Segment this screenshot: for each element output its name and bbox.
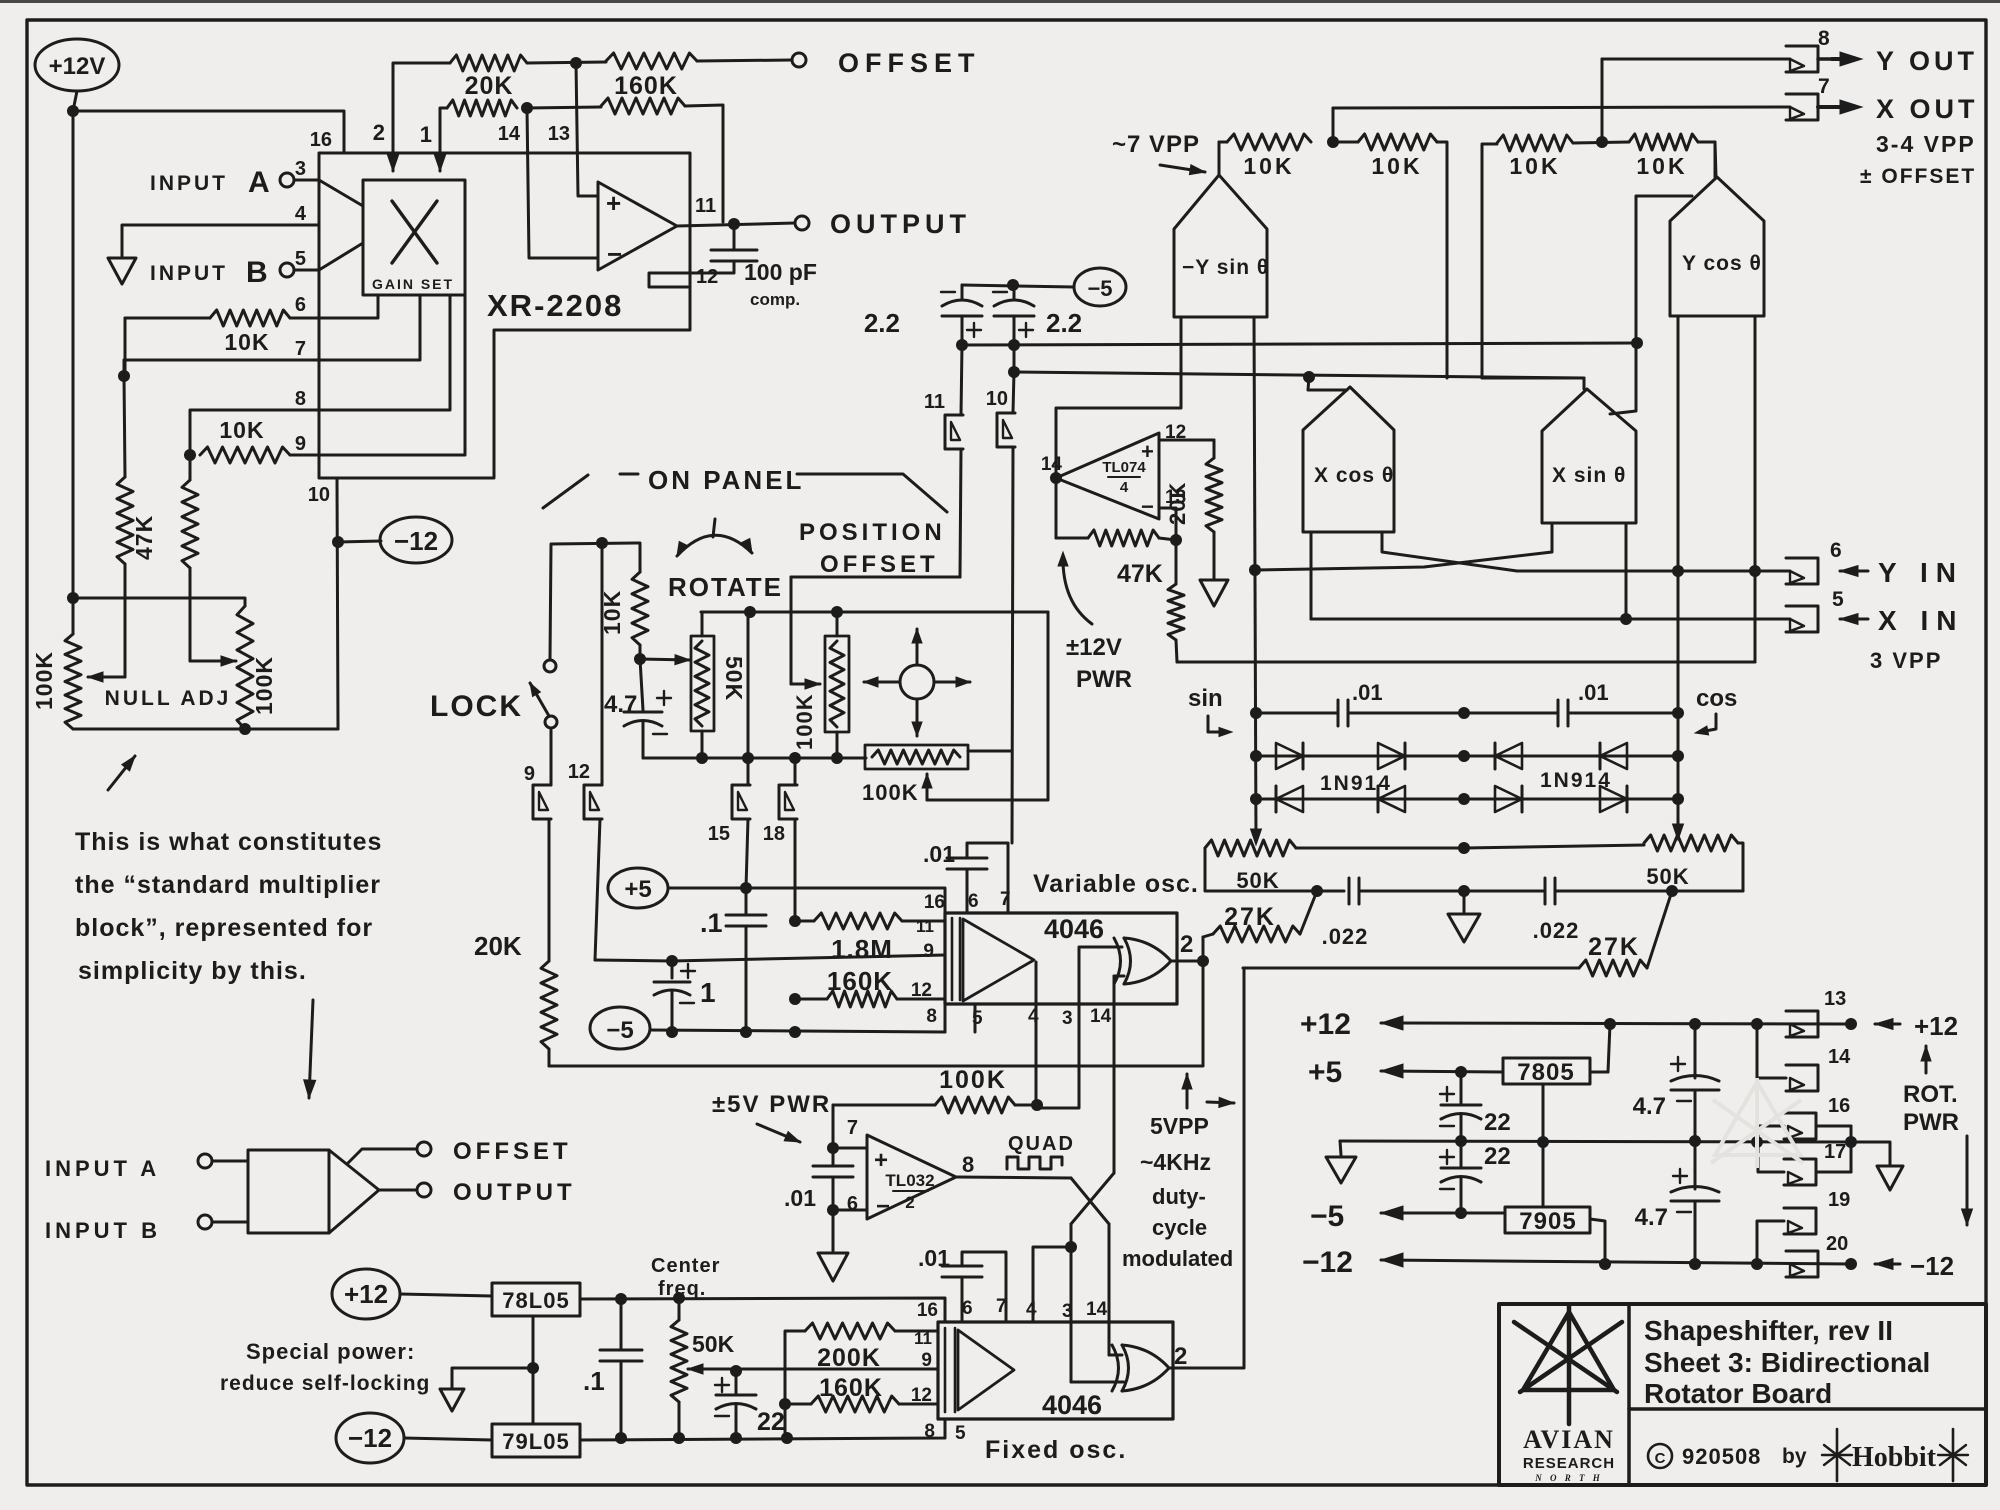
svg-text:1: 1 xyxy=(700,977,716,1008)
pin 2 label xyxy=(373,120,385,145)
svg-text:Special power:: Special power: xyxy=(246,1339,415,1364)
wire xyxy=(337,478,338,729)
bus wire 379 xyxy=(1014,372,1584,378)
node xyxy=(615,1293,627,1305)
svg-text:8: 8 xyxy=(924,1421,935,1442)
svg-text:200K: 200K xyxy=(817,1344,881,1372)
svg-text:Y cos θ: Y cos θ xyxy=(1682,252,1762,275)
wire xyxy=(791,576,960,579)
svg-text:100K: 100K xyxy=(251,656,277,715)
pin 12 label xyxy=(696,266,718,288)
svg-text:160K: 160K xyxy=(827,966,893,996)
wire xyxy=(319,295,420,360)
ground rail sym xyxy=(1326,1157,1356,1183)
power symbol -5 r xyxy=(962,268,1126,306)
capacitor 1 xyxy=(654,961,716,1032)
wire xyxy=(832,1210,835,1251)
svg-text:6: 6 xyxy=(968,891,979,912)
capacitor 4.7 xyxy=(604,659,671,758)
svg-text:50K: 50K xyxy=(692,1331,735,1357)
ground xyxy=(108,258,136,284)
node xyxy=(1458,750,1470,762)
svg-text:5: 5 xyxy=(972,1008,983,1029)
wire xyxy=(791,576,960,579)
svg-text:GAIN SET: GAIN SET xyxy=(372,276,454,292)
label 1N914 L xyxy=(1320,772,1392,795)
svg-text:LOCK: LOCK xyxy=(430,690,523,723)
node xyxy=(1689,1018,1701,1030)
connector 19 xyxy=(1757,1189,1850,1264)
op-amp U7 TL074 xyxy=(1056,433,1159,519)
diode D7 xyxy=(1495,786,1522,812)
svg-text:ROTATE: ROTATE xyxy=(668,572,783,602)
wire xyxy=(190,410,319,455)
terminal INPUT B xyxy=(150,256,319,289)
wire xyxy=(122,225,319,256)
label ROT PWR xyxy=(1903,1046,1973,1225)
node xyxy=(1008,339,1020,351)
node xyxy=(1031,1099,1043,1111)
svg-text:47K: 47K xyxy=(1117,560,1163,588)
resistor 20K tl074 xyxy=(1165,458,1222,578)
wire xyxy=(73,111,344,153)
svg-text:block”, represented for: block”, represented for xyxy=(75,914,373,942)
svg-text:OUTPUT: OUTPUT xyxy=(453,1179,576,1206)
wire xyxy=(580,1298,945,1322)
pin 9 label xyxy=(295,433,306,455)
svg-text:100K: 100K xyxy=(939,1066,1007,1094)
svg-text:160K: 160K xyxy=(614,72,678,100)
terminal Y OUT xyxy=(1602,27,1978,76)
svg-text:3: 3 xyxy=(295,158,306,180)
svg-text:2: 2 xyxy=(1180,931,1193,958)
capacitor 2.2 B xyxy=(993,285,1082,372)
svg-text:Sheet 3: Bidirectional: Sheet 3: Bidirectional xyxy=(1644,1347,1930,1378)
connector 17 xyxy=(1784,1126,1851,1185)
label cos xyxy=(1695,685,1737,735)
svg-text:78L05: 78L05 xyxy=(502,1288,569,1313)
wire xyxy=(1256,523,1552,570)
ground diode xyxy=(1448,914,1480,942)
logo star xyxy=(1514,1306,1622,1424)
rail +5 xyxy=(1308,1056,1503,1089)
diode D3 xyxy=(1495,743,1522,769)
resistor 20K xyxy=(450,55,527,100)
resistor 47K tl xyxy=(1117,540,1184,662)
svg-text:10K: 10K xyxy=(1636,153,1687,179)
resistor 100K mod xyxy=(833,1066,1036,1113)
svg-text:12: 12 xyxy=(568,761,590,783)
resistor 27K R xyxy=(1243,891,1672,976)
svg-text:the “standard multiplier: the “standard multiplier xyxy=(75,871,381,899)
svg-text:5VPP: 5VPP xyxy=(1150,1113,1209,1139)
resistor 200K xyxy=(785,1323,938,1438)
capacitor .1 var xyxy=(700,888,766,1032)
terminal X IN xyxy=(1311,588,1964,636)
node +12 junction xyxy=(67,105,79,117)
IC U4 4046 fixed xyxy=(938,1322,1173,1420)
terminal OUTPUT sym xyxy=(417,1179,576,1206)
node xyxy=(1845,1258,1857,1270)
label LOCK xyxy=(430,690,523,723)
label 3-4 vpp xyxy=(1860,131,1976,188)
node xyxy=(744,606,756,618)
arrow pin2 xyxy=(388,155,399,171)
node xyxy=(789,915,801,927)
svg-text:+12: +12 xyxy=(1300,1008,1351,1041)
svg-text:27K: 27K xyxy=(1224,903,1276,931)
svg-text:.01: .01 xyxy=(918,1245,950,1271)
node xyxy=(1672,565,1684,577)
connector 13 xyxy=(1786,988,1958,1041)
svg-text:160K: 160K xyxy=(819,1374,883,1402)
label fixed osc xyxy=(985,1436,1127,1464)
svg-text:20K: 20K xyxy=(474,931,522,961)
svg-text:12: 12 xyxy=(911,980,932,1001)
svg-text:11: 11 xyxy=(924,391,945,413)
svg-text:cycle: cycle xyxy=(1152,1215,1207,1240)
wire xyxy=(701,611,1048,614)
svg-text:−5: −5 xyxy=(606,1017,633,1044)
node xyxy=(1631,337,1643,349)
svg-text:Y IN: Y IN xyxy=(1878,557,1964,588)
label ON PANEL xyxy=(543,465,947,512)
terminal INPUT A xyxy=(150,166,319,199)
svg-text:INPUT B: INPUT B xyxy=(45,1218,161,1243)
connector 12 xyxy=(568,543,602,960)
capacitor 2.2 A xyxy=(864,285,982,345)
wire xyxy=(1033,1247,1071,1322)
svg-text:100K: 100K xyxy=(792,693,817,750)
node xyxy=(1672,707,1684,719)
node output xyxy=(728,218,740,230)
svg-text:16: 16 xyxy=(1828,1095,1850,1117)
svg-text:20K: 20K xyxy=(465,72,514,100)
node xyxy=(1845,1018,1857,1030)
wire xyxy=(1254,317,1256,842)
svg-text:4046: 4046 xyxy=(1044,914,1104,944)
ground tl032 xyxy=(818,1253,848,1281)
resistor 10K pin6 xyxy=(125,310,319,355)
resistor 10K pin9 xyxy=(200,417,319,463)
title block frame xyxy=(1499,1304,1986,1485)
wire xyxy=(1113,976,1116,1173)
wire xyxy=(1171,960,1203,963)
svg-text:−5: −5 xyxy=(1087,276,1112,301)
svg-text:simplicity by this.: simplicity by this. xyxy=(78,957,307,985)
capacitor .01 R xyxy=(1464,680,1678,726)
svg-text:±5V PWR: ±5V PWR xyxy=(712,1091,831,1118)
arrow wiper 50K xyxy=(688,1364,938,1374)
switch LOCK xyxy=(530,660,557,728)
node xyxy=(1604,1018,1616,1030)
node xyxy=(1250,707,1262,719)
svg-text:2.2: 2.2 xyxy=(864,308,900,338)
svg-text:−12: −12 xyxy=(348,1423,392,1453)
connector 14 xyxy=(1757,1024,1851,1091)
capacitor 4.7 b xyxy=(1635,1141,1719,1264)
svg-text:50K: 50K xyxy=(721,656,747,701)
label NULL ADJ xyxy=(105,687,232,710)
wire xyxy=(1851,1142,1890,1164)
wire xyxy=(404,1438,492,1440)
node xyxy=(1250,750,1262,762)
diode D1 xyxy=(1276,743,1303,769)
node pin7 xyxy=(118,370,130,382)
diode D2 xyxy=(1378,743,1405,769)
wire xyxy=(1114,975,1124,978)
svg-text:+: + xyxy=(874,1147,888,1174)
wire xyxy=(677,223,795,226)
joystick xyxy=(864,629,970,736)
svg-text:6: 6 xyxy=(962,1298,973,1319)
capacitor .01 var xyxy=(923,841,1008,913)
wire xyxy=(1036,947,1122,1108)
svg-text:14: 14 xyxy=(498,123,521,145)
resistor 10K c xyxy=(1482,135,1573,378)
resistor 160K var xyxy=(795,966,945,1007)
bus wire 345 xyxy=(962,343,1637,345)
svg-text:N O R T H: N O R T H xyxy=(1534,1473,1603,1483)
svg-text:9: 9 xyxy=(295,433,306,455)
resistor 1.8M xyxy=(795,913,945,964)
svg-text:AVIAN: AVIAN xyxy=(1523,1425,1615,1454)
XOR gate U5a xyxy=(1114,938,1171,984)
svg-text:RESEARCH: RESEARCH xyxy=(1523,1455,1615,1472)
resistor 47K xyxy=(117,376,157,677)
svg-text:4.7: 4.7 xyxy=(1635,1204,1668,1231)
svg-text:sin: sin xyxy=(1188,685,1223,712)
svg-text:11: 11 xyxy=(695,195,716,217)
label ROTATE xyxy=(668,572,783,602)
svg-text:7: 7 xyxy=(1818,75,1830,98)
regulator 7805 xyxy=(1503,1058,1590,1086)
capacitor 22 fixed xyxy=(715,1371,785,1438)
arrow wiper rotate xyxy=(640,655,690,665)
svg-text:4.7: 4.7 xyxy=(604,691,637,718)
capacitor 22 a xyxy=(1440,1072,1511,1141)
svg-text:duty-: duty- xyxy=(1152,1184,1206,1209)
node xyxy=(615,1432,627,1444)
svg-text:X cos θ: X cos θ xyxy=(1314,464,1394,487)
svg-text:27K: 27K xyxy=(1588,933,1640,961)
pin 16 label xyxy=(310,129,332,151)
svg-text:16: 16 xyxy=(917,1300,938,1321)
pin labels TL032 xyxy=(847,1117,974,1215)
wire xyxy=(527,108,598,258)
node -12 tap xyxy=(332,536,344,548)
wire xyxy=(1169,968,1244,1368)
rail gnd xyxy=(1340,1141,1851,1142)
svg-text:9: 9 xyxy=(923,941,934,962)
resistor 160K xyxy=(527,53,792,100)
arc rotate xyxy=(677,519,752,556)
potentiometer 100K pos xyxy=(792,612,849,758)
svg-text:10K: 10K xyxy=(1371,153,1422,179)
svg-text:reduce self-locking: reduce self-locking xyxy=(220,1372,430,1395)
svg-text:4.7: 4.7 xyxy=(1633,1093,1666,1120)
node xyxy=(1249,564,1261,576)
svg-text:47K: 47K xyxy=(131,515,157,560)
svg-text:3 VPP: 3 VPP xyxy=(1870,648,1942,673)
bus wire xyxy=(549,961,1203,1066)
arrow wiper 2 xyxy=(190,656,236,666)
svg-text:−: − xyxy=(1141,494,1154,519)
wire xyxy=(576,63,598,196)
svg-text:freq.: freq. xyxy=(658,1278,706,1300)
svg-text:3: 3 xyxy=(1062,1008,1073,1029)
node xyxy=(1751,1018,1763,1030)
wire xyxy=(1463,891,1466,912)
node xyxy=(634,653,646,665)
svg-text:OFFSET: OFFSET xyxy=(838,48,981,78)
ghost watermark xyxy=(1711,1078,1803,1168)
wire xyxy=(1055,478,1058,538)
svg-text:10K: 10K xyxy=(224,329,269,355)
wire xyxy=(1340,1141,1341,1155)
power symbol -12 b xyxy=(336,1413,404,1463)
node xyxy=(673,1432,685,1444)
svg-text:2.2: 2.2 xyxy=(1046,308,1082,338)
node xyxy=(527,1362,539,1374)
pin 2 label var xyxy=(1180,931,1193,958)
label special power xyxy=(220,1339,430,1395)
svg-text:ROT.: ROT. xyxy=(1903,1081,1958,1108)
node XOR1 out xyxy=(1197,955,1209,967)
node xyxy=(1065,1241,1077,1253)
svg-text:.01: .01 xyxy=(784,1185,816,1211)
label 12v pwr xyxy=(1058,552,1132,693)
svg-text:2: 2 xyxy=(373,120,385,145)
ground 20K xyxy=(1200,580,1228,606)
hobbit logo xyxy=(1822,1429,1968,1481)
svg-text:−12: −12 xyxy=(394,526,438,556)
svg-text:Center: Center xyxy=(651,1255,720,1277)
svg-text:12: 12 xyxy=(911,1385,932,1406)
node xyxy=(1303,371,1315,383)
svg-text:X OUT: X OUT xyxy=(1876,94,1979,124)
terminal INPUT A sym xyxy=(45,1154,248,1181)
svg-text:4: 4 xyxy=(295,203,307,225)
node xyxy=(789,752,801,764)
node xyxy=(666,1026,678,1038)
node xyxy=(827,1142,839,1154)
svg-text:7: 7 xyxy=(295,338,306,360)
pin 7 label xyxy=(295,338,306,360)
connector 18 xyxy=(763,758,797,921)
power symbol -12 xyxy=(338,517,452,563)
svg-text:.01: .01 xyxy=(1578,680,1609,705)
node xyxy=(1008,366,1020,378)
wire xyxy=(668,888,945,913)
svg-text:9: 9 xyxy=(921,1350,932,1371)
node xyxy=(1689,1135,1701,1147)
wire xyxy=(1159,508,1176,540)
svg-text:15: 15 xyxy=(708,823,730,845)
wire xyxy=(347,1149,417,1164)
node xyxy=(789,993,801,1005)
terminal OFFSET sym xyxy=(417,1138,572,1165)
wire xyxy=(379,1189,417,1192)
node xyxy=(666,955,678,967)
wire xyxy=(1071,1224,1124,1382)
svg-text:22: 22 xyxy=(757,1408,785,1436)
resistor 47K b xyxy=(182,455,198,661)
node xyxy=(1250,793,1262,805)
svg-text:22: 22 xyxy=(1484,1109,1511,1136)
wire xyxy=(73,598,245,606)
svg-text:50K: 50K xyxy=(1646,864,1689,889)
svg-text:QUAD: QUAD xyxy=(1008,1133,1075,1155)
node xyxy=(1596,136,1608,148)
svg-text:~7 VPP: ~7 VPP xyxy=(1112,131,1200,158)
wire xyxy=(1056,317,1181,478)
potentiometer 100K left xyxy=(31,634,81,729)
node xyxy=(1620,613,1632,625)
node xyxy=(1537,1136,1549,1148)
svg-text:−12: −12 xyxy=(1910,1251,1954,1281)
wire xyxy=(400,1294,492,1296)
potentiometer 100K right xyxy=(237,606,277,729)
svg-text:5: 5 xyxy=(955,1423,966,1444)
pin 11 label xyxy=(695,195,716,217)
svg-text:11: 11 xyxy=(914,1329,932,1348)
svg-text:16: 16 xyxy=(924,892,945,913)
ground 1617 xyxy=(1877,1166,1903,1190)
pin labels var xyxy=(911,889,1112,1029)
node xyxy=(596,537,608,549)
wire xyxy=(1601,59,1604,142)
pin 3 label xyxy=(295,158,306,180)
svg-text:100K: 100K xyxy=(31,651,57,710)
node xyxy=(831,606,843,618)
resistor 10K b xyxy=(1333,134,1447,378)
node xyxy=(696,752,708,764)
label 5V pwr xyxy=(712,1091,831,1142)
node xyxy=(742,752,754,764)
svg-text:A: A xyxy=(248,166,270,199)
terminal OFFSET xyxy=(792,48,981,78)
svg-text:PWR: PWR xyxy=(1903,1109,1959,1136)
power symbol +5 xyxy=(608,868,668,908)
label 5VPP xyxy=(1122,1074,1234,1271)
wire xyxy=(319,295,465,455)
multiplier -Y sin xyxy=(1174,142,1269,317)
pin 6 label xyxy=(295,294,306,316)
svg-text:6: 6 xyxy=(847,1193,858,1215)
wire xyxy=(1382,532,1517,571)
svg-text:100K: 100K xyxy=(862,780,919,805)
svg-text:NULL ADJ: NULL ADJ xyxy=(105,687,232,710)
rail -5 xyxy=(1310,1200,1505,1233)
svg-text:−5: −5 xyxy=(1310,1200,1344,1233)
resistor 10K d xyxy=(1573,134,1715,179)
regulator 7905 xyxy=(1505,1207,1590,1235)
XOR gate U5b xyxy=(1112,1345,1169,1391)
label sin xyxy=(1188,685,1232,737)
svg-text:TL032: TL032 xyxy=(885,1171,934,1190)
diode D8 xyxy=(1600,786,1627,812)
node xyxy=(779,1398,791,1410)
node xyxy=(521,102,533,114)
wire xyxy=(124,318,319,376)
node xyxy=(1458,707,1470,719)
wire xyxy=(1590,1024,1610,1072)
diode D5 xyxy=(1276,786,1303,812)
arrow wiper xyxy=(88,672,125,682)
svg-text:22: 22 xyxy=(1484,1143,1511,1170)
svg-text:C: C xyxy=(1655,1450,1666,1467)
